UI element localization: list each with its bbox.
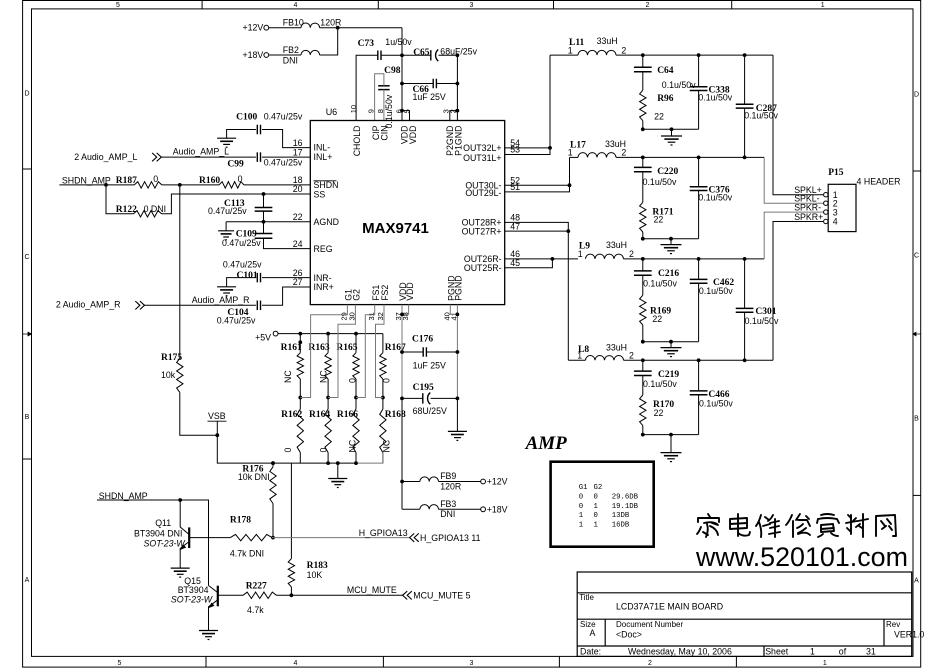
svg-text:C101: C101 (237, 271, 258, 281)
wire ground stem row4 (670, 435, 672, 453)
svg-text:FB3: FB3 (440, 499, 456, 509)
capacitor C301 (736, 307, 779, 326)
svg-text:INR+: INR+ (314, 282, 334, 292)
svg-text:0.1u/50v: 0.1u/50v (662, 80, 696, 90)
svg-text:1: 1 (821, 2, 825, 9)
wire +12V to FB10 (269, 27, 301, 29)
svg-text:R162: R162 (281, 410, 302, 420)
svg-text:SPKR+: SPKR+ (794, 212, 823, 222)
pin 1 P15 (824, 190, 838, 200)
junction (641, 358, 645, 362)
svg-text:1: 1 (578, 249, 583, 259)
junction (354, 332, 358, 336)
wire R183 bottom (290, 587, 292, 595)
svg-text:33uH: 33uH (597, 36, 618, 46)
svg-text:H_GPIOA13 11: H_GPIOA13 11 (420, 533, 481, 543)
svg-text:C220: C220 (657, 167, 678, 177)
junction (456, 53, 460, 57)
capacitor C219 (634, 370, 679, 389)
junction (336, 461, 340, 465)
svg-text:C: C (914, 253, 919, 260)
svg-text:R160: R160 (199, 176, 220, 186)
svg-text:NC: NC (382, 439, 392, 452)
svg-text:1: 1 (568, 45, 573, 55)
svg-text:R161: R161 (281, 343, 302, 353)
wire C195 right (431, 397, 458, 399)
svg-text:B: B (914, 415, 919, 422)
wire C100 to pin 16 (262, 130, 310, 148)
title block text (579, 593, 924, 656)
svg-text:0: 0 (594, 494, 598, 502)
wire SPKR+ (773, 222, 823, 361)
wire C466 column (698, 360, 700, 434)
svg-text:2: 2 (648, 660, 652, 667)
wire C220 top (642, 157, 644, 167)
resistor R161 (281, 334, 304, 398)
pin 2 P15 (824, 198, 838, 208)
svg-text:Sheet: Sheet (765, 646, 789, 656)
capacitor C99 (227, 152, 303, 169)
svg-text:Q11: Q11 (155, 518, 171, 528)
svg-text:D: D (24, 91, 29, 98)
title block (577, 572, 912, 656)
svg-text:10K: 10K (307, 570, 323, 580)
svg-text:Audio_AMP_R: Audio_AMP_R (192, 295, 250, 305)
junction (290, 593, 294, 597)
capacitor C98 (378, 66, 401, 89)
wire C113 bottom (263, 211, 265, 222)
svg-text:P1GND: P1GND (453, 126, 463, 156)
svg-text:0: 0 (153, 174, 158, 184)
inductor L9 (578, 240, 634, 259)
resistor R165 (336, 334, 359, 398)
svg-text:3: 3 (469, 660, 473, 667)
junction (697, 257, 701, 261)
svg-text:4: 4 (293, 2, 297, 9)
junction (336, 26, 340, 30)
junction (743, 257, 747, 261)
resistor R164 (309, 398, 331, 464)
wire C109 bottom to REG pin 24 (264, 238, 311, 248)
svg-text:PGND: PGND (454, 275, 464, 300)
junction (566, 229, 570, 233)
resistor R169 (640, 295, 672, 325)
svg-text:NC: NC (318, 370, 328, 383)
junction (456, 109, 460, 113)
svg-text:VDD: VDD (408, 126, 418, 145)
junction (669, 340, 673, 344)
wire C176 left (402, 351, 423, 353)
junction (641, 156, 645, 160)
svg-text:24: 24 (293, 239, 303, 249)
gain table box (551, 462, 654, 547)
ferrite bead FB9 (420, 471, 461, 491)
svg-text:0.1u/50v: 0.1u/50v (745, 316, 779, 326)
svg-text:22: 22 (652, 314, 662, 324)
svg-text:DNI: DNI (283, 55, 298, 65)
wire R170 bottom row (643, 426, 699, 435)
svg-text:C64: C64 (657, 66, 674, 76)
svg-text:SHDN_AMP: SHDN_AMP (62, 176, 111, 186)
svg-text:0.47u/25v: 0.47u/25v (217, 315, 256, 325)
transistor Q15 (171, 576, 243, 630)
svg-text:<Doc>: <Doc> (616, 630, 642, 640)
svg-text:4: 4 (293, 660, 297, 667)
wire C216 top (642, 259, 644, 271)
svg-text:4.7k DNI: 4.7k DNI (230, 549, 264, 559)
svg-text:0: 0 (579, 503, 583, 511)
capacitor C176 (412, 334, 446, 370)
ferrite bead FB2 (283, 45, 320, 65)
svg-text:VSB: VSB (208, 411, 226, 421)
svg-text:0.1u/50v: 0.1u/50v (699, 398, 733, 408)
svg-text:OUT32L+: OUT32L+ (463, 143, 501, 153)
svg-text:Wednesday, May 10, 2006: Wednesday, May 10, 2006 (628, 646, 732, 656)
wire V+ down to C73 row (401, 28, 403, 56)
svg-text:www.520101.com: www.520101.com (695, 542, 908, 572)
resistor R178 (230, 515, 272, 558)
wire C287 column (744, 55, 746, 157)
svg-text:0.47u/25v: 0.47u/25v (208, 206, 247, 216)
svg-text:17: 17 (293, 147, 303, 157)
junction (568, 183, 572, 187)
wire VDD column to FB9/FB3 (401, 398, 403, 509)
resistor R122 (116, 204, 166, 217)
svg-text:5: 5 (116, 2, 120, 9)
wire FB3 left (402, 508, 420, 510)
svg-text:DNI: DNI (440, 509, 455, 519)
svg-text:5: 5 (117, 660, 121, 667)
svg-text:68U/25V: 68U/25V (413, 406, 447, 416)
svg-text:of: of (839, 646, 847, 656)
wire FB9 to +12V (439, 481, 481, 483)
capacitor C462 (690, 278, 735, 296)
svg-text:Document Number: Document Number (616, 620, 683, 629)
wire C66 right (436, 83, 457, 85)
wire VDD column down (401, 305, 403, 399)
svg-text:C100: C100 (236, 113, 257, 123)
wire C73 left to pin 10 (356, 55, 378, 120)
svg-text:0.1u/50v: 0.1u/50v (643, 279, 677, 289)
wire ground stem row2 (670, 239, 672, 245)
wire C104 to pin 27 (262, 287, 310, 305)
border fold arrow right (913, 332, 921, 336)
svg-text:A: A (25, 577, 30, 584)
svg-text:SHDN_AMP: SHDN_AMP (99, 491, 148, 501)
watermark chinese characters (697, 514, 896, 537)
junction (400, 480, 404, 484)
wire R175 top (179, 185, 181, 358)
output port MCU_MUTE (403, 591, 471, 601)
svg-text:22: 22 (654, 408, 664, 418)
capacitor C64 (634, 66, 696, 90)
junction (548, 146, 552, 150)
svg-text:R227: R227 (246, 581, 267, 591)
wire C113 top (263, 194, 265, 208)
+18V terminal (243, 50, 269, 60)
svg-text:R168: R168 (385, 410, 406, 420)
junction (215, 433, 219, 437)
capacitor C104 (217, 301, 261, 326)
wire C195 left (402, 397, 423, 399)
+12V terminal right (481, 477, 508, 487)
inductor L8 (568, 343, 634, 361)
svg-text:R165: R165 (336, 343, 357, 353)
junction (641, 237, 645, 241)
svg-text:0.1u/50v: 0.1u/50v (698, 93, 732, 103)
junction (743, 358, 747, 362)
svg-text:BT3904 DNI: BT3904 DNI (134, 528, 182, 538)
svg-text:3: 3 (469, 2, 473, 9)
junction (326, 396, 330, 400)
junction (271, 536, 275, 540)
capacitor C376 (690, 186, 733, 203)
svg-text:13DB: 13DB (612, 512, 630, 520)
wire OUT31L+ pin53 (505, 55, 550, 154)
svg-text:C73: C73 (358, 39, 375, 49)
svg-text:VDD: VDD (405, 282, 415, 301)
wire C376 column (698, 157, 700, 238)
ferrite bead FB3 (420, 499, 457, 519)
wire OUT26R- pin46 (505, 258, 578, 260)
svg-text:16DB: 16DB (612, 521, 630, 529)
svg-text:4 HEADER: 4 HEADER (857, 176, 901, 186)
junction (641, 127, 645, 131)
svg-text:SOT-23-W: SOT-23-W (144, 538, 186, 548)
junction (551, 257, 555, 261)
svg-text:0 DNI: 0 DNI (144, 204, 167, 214)
input port Audio_AMP_L (74, 152, 161, 162)
svg-text:SS: SS (314, 189, 326, 199)
wire R96 bottom row (643, 121, 699, 130)
node VSB (208, 411, 227, 435)
resistor R183 (288, 559, 328, 587)
ground L17 row (661, 244, 682, 246)
junction (400, 350, 404, 354)
wire C462 column (698, 259, 700, 342)
resistor R160 (199, 174, 244, 188)
junction (641, 433, 645, 437)
wire array ground stem (337, 463, 339, 478)
svg-text:1: 1 (594, 521, 599, 529)
wire VSB to array bottom row (217, 435, 356, 463)
capacitor C216 (634, 269, 679, 288)
op-amp U6 MAX9741 body (310, 107, 504, 304)
wire C99 to pin 17 (262, 156, 310, 158)
junction (326, 461, 330, 465)
wire C98 bottom to pin 8 (383, 90, 385, 121)
svg-text:CIN: CIN (380, 126, 390, 141)
junction (743, 156, 747, 160)
junction (271, 461, 275, 465)
junction (400, 53, 404, 57)
gain table text (579, 484, 639, 529)
svg-text:4.7k: 4.7k (247, 605, 264, 615)
wire FS1 pin 31 to R165/R166 node (356, 305, 375, 398)
wire C73 right (381, 54, 430, 56)
wire R183 top (290, 463, 292, 558)
resistor R187 (116, 174, 162, 188)
wire L17 output row (616, 156, 764, 158)
svg-text:31: 31 (866, 646, 876, 656)
svg-text:MCU_MUTE: MCU_MUTE (347, 585, 397, 595)
svg-text:0.1u/50v: 0.1u/50v (698, 192, 732, 202)
svg-text:0.1u/50v: 0.1u/50v (643, 177, 677, 187)
svg-text:C98: C98 (384, 66, 401, 76)
svg-text:OUT29L-: OUT29L- (465, 188, 501, 198)
ground PGND column (448, 430, 467, 432)
svg-text:0: 0 (283, 448, 293, 453)
junction (262, 220, 266, 224)
wire C301 column (744, 259, 746, 360)
junction (262, 192, 266, 196)
wire MCU_MUTE (277, 585, 403, 595)
svg-text:0.47u/25v: 0.47u/25v (264, 112, 303, 122)
svg-text:G2: G2 (352, 289, 362, 301)
svg-text:1: 1 (579, 512, 584, 520)
svg-text:27: 27 (293, 277, 303, 287)
output port H_GPIOA13 (410, 533, 481, 543)
wire to R122 (106, 185, 134, 214)
junction (456, 313, 460, 317)
wire L9 output row (624, 258, 765, 260)
svg-text:OUT27R+: OUT27R+ (462, 226, 502, 236)
capacitor C65 (413, 46, 477, 61)
svg-text:R122: R122 (116, 205, 137, 215)
svg-text:53: 53 (510, 145, 520, 155)
ground L11 row (661, 135, 682, 137)
svg-text:R163: R163 (308, 343, 329, 353)
svg-text:2: 2 (629, 249, 634, 259)
capacitor C287 (736, 104, 779, 121)
wire OUT30L- pin52 (505, 184, 570, 186)
svg-text:0: 0 (318, 448, 328, 453)
junction (298, 396, 302, 400)
connector P15 (828, 168, 900, 232)
svg-text:U6: U6 (326, 107, 338, 117)
junction (400, 397, 404, 401)
wire +5V rail (278, 333, 383, 335)
svg-text:29.6DB: 29.6DB (612, 494, 639, 502)
resistor R163 (308, 334, 331, 398)
wire FB3 to +18V (439, 508, 481, 510)
capacitor C101 (223, 259, 262, 282)
svg-text:0.1u/50v: 0.1u/50v (699, 286, 733, 296)
border fold arrow left (23, 332, 32, 336)
capacitor C466 (690, 390, 734, 408)
svg-text:19.1DB: 19.1DB (612, 503, 639, 511)
svg-text:8: 8 (376, 109, 385, 113)
svg-text:A: A (590, 628, 596, 638)
wire PGND to ground (456, 398, 458, 431)
svg-text:0.1u/50v: 0.1u/50v (384, 94, 394, 128)
resistor R162 (281, 398, 303, 464)
wire L8 output row (624, 359, 774, 361)
svg-text:0: 0 (238, 174, 243, 184)
svg-text:10k DNI: 10k DNI (238, 472, 270, 482)
junction (298, 340, 302, 344)
wire FB10 to V+ node (320, 27, 402, 29)
pin 3 P15 (824, 207, 838, 217)
wire VDD column pin6 (401, 55, 403, 120)
svg-text:9: 9 (367, 109, 376, 113)
svg-text:R187: R187 (116, 176, 137, 186)
capacitor C338 (690, 86, 733, 103)
svg-text:OUT31L+: OUT31L+ (463, 153, 501, 163)
svg-text:R96: R96 (657, 94, 674, 104)
svg-text:R175: R175 (161, 353, 182, 363)
wire SHDN_AMP lower (97, 500, 209, 586)
svg-text:2 Audio_AMP_L: 2 Audio_AMP_L (74, 152, 137, 162)
wire ground stem row3 (670, 342, 672, 348)
wire OUT27R+ pin47 (505, 230, 569, 232)
inductor L17 (568, 139, 627, 158)
svg-text:0.47u/25v: 0.47u/25v (222, 238, 261, 248)
+5V terminal (255, 331, 278, 342)
ground C101 (217, 286, 236, 288)
capacitor C113 (208, 199, 272, 216)
wire Audio_AMP_L (161, 147, 256, 157)
svg-text:AGND: AGND (314, 217, 339, 227)
junction (743, 53, 747, 57)
resistor R166 (337, 398, 359, 464)
ferrite bead FB10 (283, 18, 342, 28)
wire R160 to pin 18 (244, 184, 310, 186)
wire C98 top to pin 9 (375, 74, 384, 121)
junction (381, 396, 385, 400)
wire H_GPIOA13 (272, 528, 410, 538)
svg-text:NC: NC (348, 439, 358, 452)
svg-text:AMP: AMP (525, 433, 568, 454)
transistor Q11 (134, 500, 230, 568)
wire R175 bottom to VSB (180, 392, 218, 435)
wire G2 pin 30 to R163/R164 node (328, 305, 355, 398)
junction (697, 156, 701, 160)
wire pin 3 jog (450, 111, 458, 121)
svg-text:22: 22 (654, 112, 664, 122)
svg-text:MAX9741: MAX9741 (362, 220, 429, 237)
svg-text:1: 1 (568, 148, 573, 158)
ground Q15 (199, 630, 218, 632)
capacitor C195 (413, 383, 447, 416)
capacitor C100 (236, 112, 303, 135)
svg-text:VER1.0: VER1.0 (894, 630, 924, 640)
svg-text:2: 2 (629, 350, 634, 360)
junction (669, 237, 673, 241)
junction (354, 396, 358, 400)
+12V terminal (243, 23, 269, 33)
svg-text:0.1u/50v: 0.1u/50v (643, 379, 677, 389)
svg-text:4: 4 (833, 217, 838, 227)
svg-text:1: 1 (579, 521, 584, 529)
wire P1GND column pin2 (456, 55, 458, 120)
svg-text:+12V: +12V (243, 23, 264, 33)
wire C100 ground (227, 130, 256, 139)
wire pin 38 jog (402, 305, 409, 315)
wire FB2 to +12V junction (320, 28, 338, 55)
junction (271, 461, 275, 465)
wire FS2 pin 32 to R167/R168 node (376, 305, 385, 398)
svg-text:0.47u/25v: 0.47u/25v (223, 259, 262, 269)
wire R176 bottom (272, 504, 274, 538)
resistor R171 (640, 202, 674, 232)
junction (641, 340, 645, 344)
svg-text:0: 0 (594, 512, 598, 520)
wire Audio_AMP_R (145, 295, 256, 305)
svg-text:1: 1 (577, 350, 582, 360)
svg-text:0: 0 (579, 494, 583, 502)
junction (298, 332, 302, 336)
